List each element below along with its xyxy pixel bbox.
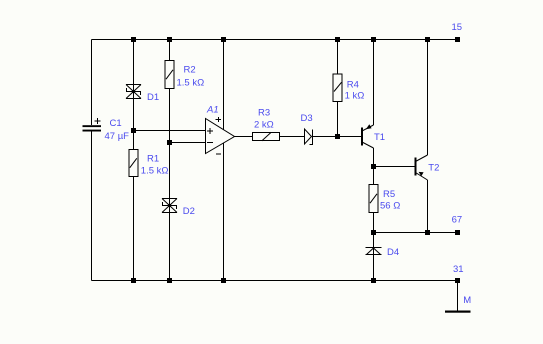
svg-text:1.5 kΩ: 1.5 kΩ xyxy=(177,77,205,88)
svg-text:C1: C1 xyxy=(110,118,122,129)
svg-text:1.5 kΩ: 1.5 kΩ xyxy=(141,165,169,176)
svg-text:15: 15 xyxy=(452,22,463,33)
svg-text:R1: R1 xyxy=(147,153,159,164)
svg-text:1 kΩ: 1 kΩ xyxy=(345,90,365,101)
svg-text:47 µF: 47 µF xyxy=(105,131,130,142)
svg-text:T1: T1 xyxy=(374,132,385,143)
svg-text:D2: D2 xyxy=(183,206,195,217)
svg-text:M: M xyxy=(463,295,471,306)
svg-text:2 kΩ: 2 kΩ xyxy=(254,119,274,130)
svg-text:R5: R5 xyxy=(383,189,395,200)
svg-text:D4: D4 xyxy=(387,247,399,258)
svg-text:R4: R4 xyxy=(347,80,359,91)
svg-text:31: 31 xyxy=(453,264,464,275)
svg-text:R3: R3 xyxy=(258,108,270,119)
svg-text:T2: T2 xyxy=(428,162,439,173)
svg-text:D1: D1 xyxy=(147,92,159,103)
svg-text:D3: D3 xyxy=(301,113,313,124)
svg-text:56 Ω: 56 Ω xyxy=(380,200,400,211)
svg-text:67: 67 xyxy=(452,214,463,225)
svg-text:R2: R2 xyxy=(184,65,196,76)
svg-text:A1: A1 xyxy=(206,104,219,115)
